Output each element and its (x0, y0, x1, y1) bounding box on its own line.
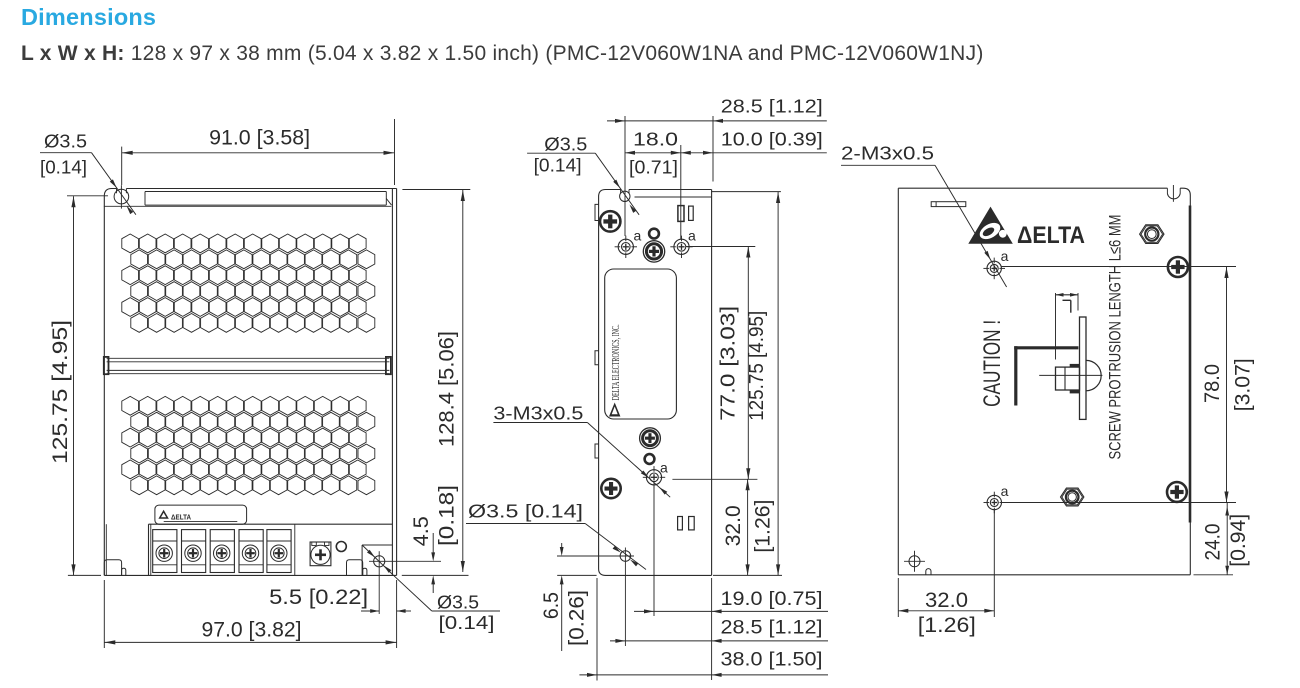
svg-text:97.0 [3.82]: 97.0 [3.82] (202, 618, 302, 641)
left view: top-left mounting hole ø3.5 (114, 185, 129, 208)
left view: adjustment potentiometer (310, 542, 331, 566)
svg-text:a: a (688, 228, 696, 244)
left view: terminal block 4 (239, 530, 263, 573)
right view: lower hole reference line (1002, 502, 1237, 504)
svg-text:[0.71]: [0.71] (629, 157, 678, 177)
dimension 77.0 [3.03] (middle view) (672, 247, 757, 480)
right view: Delta logo (968, 207, 1085, 249)
svg-text:[0.14]: [0.14] (534, 156, 582, 176)
svg-text:24.0: 24.0 (1202, 524, 1225, 561)
svg-text:91.0 [3.58]: 91.0 [3.58] (209, 127, 310, 150)
middle view: mounting hole a (top-right) (670, 228, 696, 258)
right view: mounting hole a (bottom) (984, 483, 1009, 513)
middle view: mounting hole a (top-left) (615, 228, 642, 258)
svg-text:[1.26]: [1.26] (918, 614, 976, 637)
svg-text:ΔELTA: ΔELTA (171, 514, 191, 521)
left view: upper hex vent panel (122, 234, 375, 332)
dimension 28.5 [1.12] (middle view top) (607, 97, 827, 236)
right view: mounting hole a (top) (983, 248, 1008, 279)
dimension 32.0 [1.26] (right view) (898, 510, 994, 637)
left view: delta logo plate (155, 505, 247, 524)
svg-text:a: a (634, 228, 642, 244)
middle view: DIN clip tab 2 (595, 351, 599, 365)
svg-text:10.0 [0.39]: 10.0 [0.39] (721, 130, 823, 150)
left view: bottom-right mounting hole ø3.5 (362, 545, 441, 614)
middle view: small hole upper (649, 229, 659, 239)
left view: terminal block 1 (153, 530, 177, 573)
middle view: center screw upper (643, 241, 664, 262)
right view: screw protrusion pictogram (1014, 293, 1102, 419)
middle view: cover screw top-left (600, 211, 620, 231)
svg-text:[0.18]: [0.18] (435, 485, 458, 546)
left view: LED indicator (336, 542, 346, 552)
left view: case outline (104, 189, 397, 576)
middle view: top vent slots (678, 206, 693, 222)
label 2-M3x0.5 (right view holes) (841, 144, 1007, 288)
middle view: bottom mounting hole ø3.5 (617, 548, 634, 647)
svg-text:6.5: 6.5 (540, 592, 563, 619)
dimension 4.5 [0.18] (left view) (402, 485, 469, 593)
svg-text:ΔELTA: ΔELTA (1017, 222, 1085, 249)
left view: recessed top panel (145, 192, 392, 206)
dimension 6.5 [0.26] (middle view) (540, 543, 620, 651)
svg-text:CAUTION !: CAUTION ! (979, 320, 1006, 407)
svg-text:18.0: 18.0 (633, 130, 678, 150)
svg-text:32.0: 32.0 (925, 589, 968, 612)
middle view: mounting hole a (lower) (643, 460, 668, 489)
svg-text:78.0: 78.0 (1201, 364, 1224, 403)
right view: SCREW PROTRUSION LENGTH L<=6 MM text (1106, 215, 1125, 460)
svg-text:[0.14]: [0.14] (40, 157, 87, 177)
left view: terminal block 2 (182, 530, 206, 573)
left view: terminal block 3 (210, 530, 234, 573)
svg-text:4.5: 4.5 (410, 516, 433, 546)
svg-text:128.4 [5.06]: 128.4 [5.06] (435, 331, 458, 447)
label ø3.5 [0.14] (middle view top hole) (527, 134, 639, 214)
dimension 24.0 [0.94] (right view) (1194, 503, 1250, 575)
label ø3.5 [0.14] (left view top-left hole) (40, 131, 136, 214)
dimension 32.0 [1.26] (middle view) (713, 479, 782, 575)
svg-text:[0.14]: [0.14] (439, 613, 495, 633)
right view: cover screw bottom-right (1167, 482, 1187, 502)
label 3-M3x0.5 (middle view holes) (493, 404, 670, 498)
dimension 97.0 [3.82] (left view bottom width) (104, 580, 396, 648)
dimension 125.75 [4.95] (middle view) (711, 192, 781, 576)
middle view: case outline (599, 190, 712, 576)
right view: top slot notch (1167, 185, 1180, 202)
left view: right foot tab (347, 560, 367, 576)
middle view: product label plate (605, 269, 677, 419)
left view: terminal block 5 (267, 530, 291, 573)
subtitle: overall size text (21, 42, 984, 66)
middle view: lower vent slots (678, 517, 695, 530)
svg-text:SCREW PROTRUSION LENGTH L≤6 M: SCREW PROTRUSION LENGTH L≤6 MM (1106, 215, 1125, 460)
svg-text:5.5 [0.22]: 5.5 [0.22] (269, 586, 368, 609)
dimension 38.0 [1.50] (middle view bottom) (579, 578, 828, 681)
dimension 125.75 [4.95] (left view height) (49, 196, 108, 576)
middle view: DIN clip tab 3 (595, 444, 599, 458)
label ø3.5 [0.14] (left view bottom-right hole) (394, 576, 500, 633)
svg-text:2-M3x0.5: 2-M3x0.5 (841, 144, 934, 164)
svg-text:Ø3.5: Ø3.5 (437, 593, 479, 613)
svg-text:28.5 [1.12]: 28.5 [1.12] (721, 618, 823, 639)
svg-text:19.0 [0.75]: 19.0 [0.75] (721, 589, 823, 610)
right view: hex standoff bottom (1061, 488, 1084, 506)
dimension 28.5 [1.12] (middle view bottom) (610, 618, 828, 643)
dimension 128.4 [5.06] (left view overall height) (402, 190, 470, 573)
right view: hex standoff top (1140, 225, 1164, 244)
svg-text:28.5 [1.12]: 28.5 [1.12] (721, 97, 823, 117)
label ø3.5 [0.14] (middle view bottom hole) (466, 501, 646, 569)
svg-text:a: a (1001, 248, 1009, 264)
middle view: center screw lower (640, 428, 661, 449)
svg-text:[1.26]: [1.26] (752, 500, 775, 553)
svg-text:a: a (660, 460, 668, 476)
left view: terminal strip housing (106, 524, 392, 575)
left view: center divider band (104, 357, 391, 374)
middle view: small hole lower (645, 454, 655, 464)
dimension 10.0 [0.39] (middle view) (681, 130, 827, 155)
svg-text:77.0 [3.03]: 77.0 [3.03] (716, 306, 739, 421)
middle view: top mounting hole ø3.5 (620, 190, 630, 202)
middle view: DIN clip tab 1 (595, 204, 599, 220)
svg-text:Ø3.5: Ø3.5 (44, 131, 87, 151)
svg-text:[0.94]: [0.94] (1227, 514, 1250, 567)
svg-text:[0.26]: [0.26] (566, 590, 589, 646)
page title: Dimensions (21, 4, 156, 31)
svg-text:a: a (1001, 483, 1009, 499)
svg-text:[3.07]: [3.07] (1231, 358, 1254, 411)
middle view: cover screw lower-left (601, 479, 620, 498)
right view: cover screw top-right (1168, 257, 1188, 277)
right view: case outline (898, 188, 1190, 575)
left view: lower hex vent panel (122, 396, 375, 494)
svg-text:Ø3.5: Ø3.5 (544, 134, 587, 154)
right view: upper hole reference line (1002, 266, 1237, 268)
svg-text:125.75 [4.95]: 125.75 [4.95] (745, 311, 768, 421)
right view: top vent slot (931, 202, 966, 207)
dimension 5.5 [0.22] (left view) (269, 580, 411, 648)
dimension 91.0 [3.58] (left view top width) (122, 119, 395, 185)
left view: left foot tab (104, 560, 126, 576)
dimension 18.0 [0.71] (middle view) (625, 130, 681, 239)
svg-text:3-M3x0.5: 3-M3x0.5 (493, 404, 583, 424)
svg-text:DELTA ELECTRONICS, INC.: DELTA ELECTRONICS, INC. (611, 324, 622, 400)
svg-text:32.0: 32.0 (722, 505, 745, 546)
svg-text:125.75 [4.95]: 125.75 [4.95] (49, 320, 72, 464)
dimension 78.0 [3.07] (right view) (1201, 267, 1254, 503)
right view: bottom edge notch (926, 569, 931, 575)
svg-text:Ø3.5 [0.14]: Ø3.5 [0.14] (468, 501, 583, 521)
right view: bottom-left pilot hole (904, 551, 925, 572)
dimension 19.0 [0.75] (middle view bottom) (634, 485, 828, 680)
svg-text:38.0 [1.50]: 38.0 [1.50] (721, 650, 823, 671)
right view: CAUTION ! text (979, 320, 1006, 407)
